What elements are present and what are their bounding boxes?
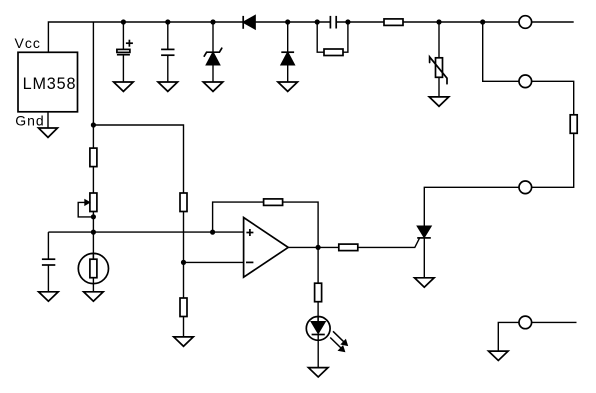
wire RV1 to rail [438, 22, 440, 58]
resistor R right side [570, 115, 577, 134]
ground C4 [39, 292, 59, 301]
node junction rail / terminal branch [480, 19, 485, 24]
terminal T3 [519, 181, 532, 194]
capacitor C1 polarized [117, 40, 133, 55]
wire rail branch left column [92, 22, 94, 148]
node junction rail / D1 [210, 19, 215, 24]
thyristor Q1 [417, 226, 431, 238]
ground SCR [415, 278, 435, 287]
ground D3 [278, 82, 298, 91]
wire divider lower [183, 262, 185, 298]
resistor R4 feedback [264, 199, 283, 206]
svg-text:Vcc: Vcc [15, 35, 41, 51]
ground R3 [174, 337, 194, 346]
wire D1 to ground [212, 65, 214, 82]
wire op-amp output [288, 246, 339, 248]
op-amp power block U1 LM358 [15, 35, 78, 129]
wire T3 to SCR [424, 187, 519, 226]
resistor R2 divider upper [180, 193, 187, 212]
op-amp U1 [244, 218, 289, 278]
wire Vcc top rail [48, 22, 573, 52]
diode D2 series on rail [243, 16, 255, 29]
wire to second branch [93, 125, 183, 193]
wire horizontal to op-amp plus [48, 231, 243, 233]
ground LM358 [39, 128, 58, 137]
wire D1 to rail [212, 22, 214, 52]
wire op-amp minus input [184, 261, 244, 263]
terminal T2 [519, 75, 532, 88]
resistor R series on rail [384, 19, 403, 26]
svg-text:LM358: LM358 [23, 75, 77, 93]
node junction left column upper [91, 122, 96, 127]
resistor R3 divider lower [180, 298, 187, 317]
node junction feedback / plus input [210, 230, 215, 235]
wire C4 to ground [47, 265, 49, 292]
wire R2 to node [183, 212, 185, 263]
ground D1 [203, 82, 223, 91]
resistor R6 LED [315, 283, 322, 302]
wire C2 to ground [167, 55, 169, 82]
node junction output [316, 245, 321, 250]
ground T4 [489, 351, 509, 360]
node junction divider / op-amp minus [181, 260, 186, 265]
capacitor C4 [42, 259, 55, 265]
ground sensor [84, 292, 104, 301]
node junction rail / D3 [285, 19, 290, 24]
svg-text:Gnd: Gnd [15, 113, 44, 129]
resistor R5 gate [339, 244, 358, 251]
wire C2 to rail [167, 22, 169, 49]
node junction rail / snubber right [345, 19, 350, 24]
node junction rail / C2 [165, 19, 170, 24]
wire R to T3 [532, 133, 574, 187]
ground C1 [114, 82, 134, 91]
wire snubber loop right [343, 22, 348, 52]
terminal T4 [519, 316, 532, 329]
wire snubber loop [317, 22, 324, 52]
resistor R snubber [324, 49, 343, 56]
wire gate to SCR [358, 238, 420, 247]
diode D3 [281, 52, 294, 64]
capacitor C3 series on rail [330, 16, 336, 29]
wire R6 to LED [317, 302, 319, 322]
wire LED branch [317, 247, 319, 283]
resistor R1 left column [90, 148, 97, 167]
wire C1 to rail [122, 22, 124, 50]
wire RV1 to ground [438, 77, 440, 97]
node junction left column / horizontal [91, 230, 96, 235]
ground C2 [158, 82, 178, 91]
LED D4 [306, 317, 348, 353]
wire LED to ground [317, 340, 319, 367]
wire feedback up [213, 202, 264, 232]
node junction rail / RV1 [436, 19, 441, 24]
ground LED [308, 368, 328, 377]
capacitor C2 [161, 49, 174, 55]
wire R3 to ground [183, 317, 185, 337]
node junction rail / snubber left [315, 19, 320, 24]
potentiometer RV2 [78, 193, 97, 217]
wire T4 to ground [498, 322, 519, 351]
wire C4 branch [47, 232, 49, 259]
wire sensor to ground [92, 278, 94, 292]
wire C1 to ground [122, 55, 124, 82]
wire T4 right [532, 321, 577, 323]
varistor RV1 [430, 57, 447, 84]
wire to terminal 2 [483, 22, 519, 81]
ground RV1 [429, 97, 449, 106]
wire feedback right [283, 202, 319, 247]
wire D3 to ground [287, 65, 289, 82]
diode D1 zener [204, 48, 222, 64]
wire SCR to ground [423, 238, 425, 278]
wire T2 right [532, 81, 574, 115]
wire R1 to pot [92, 167, 94, 193]
terminal T1 [519, 16, 532, 29]
wire pot to node [92, 212, 94, 233]
wire LM358 Gnd pin [47, 112, 49, 128]
wire D3 to rail [287, 22, 289, 52]
thermistor sensor TH1 [78, 232, 108, 284]
node junction pot wiper [91, 214, 96, 219]
node junction rail / C1 [121, 19, 126, 24]
